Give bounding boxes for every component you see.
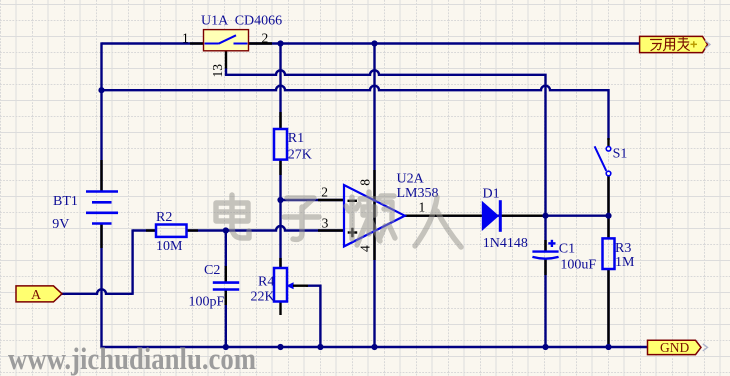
svg-text:D1: D1	[483, 187, 500, 202]
svg-text:C1: C1	[559, 242, 575, 257]
svg-text:R4: R4	[258, 275, 274, 290]
svg-text:1M: 1M	[615, 255, 635, 270]
svg-text:GND: GND	[660, 340, 689, 355]
svg-text:3: 3	[322, 216, 329, 231]
svg-text:2: 2	[262, 31, 269, 46]
svg-text:22K: 22K	[251, 290, 275, 305]
svg-text:4: 4	[357, 245, 372, 252]
svg-text:LM358: LM358	[397, 186, 439, 201]
svg-text:100pF: 100pF	[189, 295, 225, 310]
svg-text:10M: 10M	[156, 239, 183, 254]
svg-text:27K: 27K	[288, 147, 312, 162]
svg-text:CD4066: CD4066	[235, 14, 282, 29]
svg-text:2: 2	[321, 185, 328, 200]
svg-text:R3: R3	[615, 241, 631, 256]
svg-text:1: 1	[182, 31, 189, 46]
svg-text:S1: S1	[613, 147, 628, 162]
svg-text:8: 8	[358, 179, 373, 186]
svg-text:C2: C2	[204, 263, 220, 278]
svg-text:BT1: BT1	[53, 194, 78, 209]
svg-text:A: A	[31, 288, 42, 303]
svg-text:1: 1	[419, 200, 426, 215]
svg-text:R2: R2	[156, 210, 172, 225]
svg-text:U2A: U2A	[397, 172, 425, 187]
svg-text:U1A: U1A	[201, 14, 229, 29]
svg-text:1N4148: 1N4148	[483, 236, 528, 251]
svg-text:9V: 9V	[52, 217, 69, 232]
svg-text:100uF: 100uF	[560, 258, 596, 273]
svg-text:www.jichudianlu.com: www.jichudianlu.com	[8, 341, 256, 376]
svg-text:R1: R1	[288, 131, 304, 146]
svg-text:13: 13	[210, 64, 225, 78]
